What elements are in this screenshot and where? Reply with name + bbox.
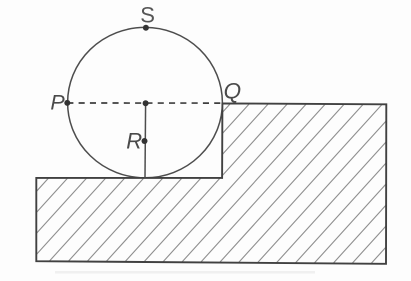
hatching — [0, 94, 411, 272]
faint scan shadow below block — [55, 271, 315, 274]
dashed line P to Q — [67, 102, 222, 104]
step ground block (hatched) — [0, 94, 411, 272]
circle (ball) — [68, 27, 223, 177]
dot at R — [142, 138, 148, 144]
vertical radius line from centre to contact point — [144, 103, 147, 177]
dot at centre — [143, 100, 149, 106]
step outline — [36, 103, 386, 263]
svg-text:Q: Q — [224, 78, 242, 103]
svg-text:P: P — [50, 91, 65, 115]
dot at S (top of circle) — [143, 25, 149, 31]
svg-text:S: S — [140, 2, 155, 27]
svg-text:R: R — [126, 129, 142, 154]
dot at P — [64, 100, 70, 106]
